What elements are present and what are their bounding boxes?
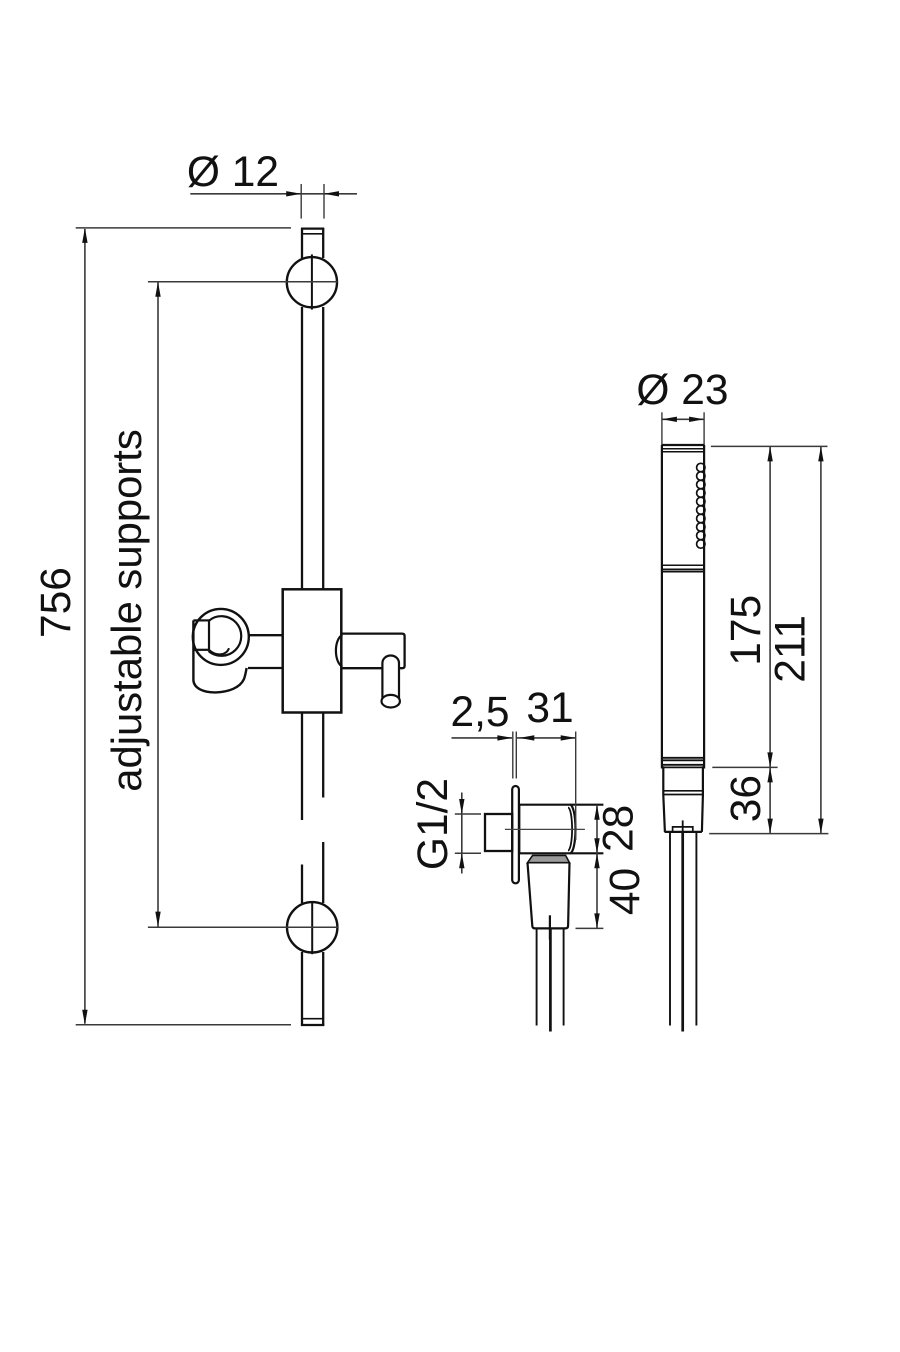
svg-text:Ø 23: Ø 23 [636,367,728,414]
svg-text:40: 40 [602,868,649,915]
svg-text:G1/2: G1/2 [410,778,457,870]
svg-text:31: 31 [526,685,573,732]
svg-text:Ø 12: Ø 12 [187,149,279,196]
svg-text:175: 175 [723,595,770,666]
svg-text:28: 28 [595,805,642,852]
svg-text:756: 756 [33,567,80,638]
svg-text:211: 211 [768,615,815,683]
svg-text:2,5: 2,5 [450,689,509,736]
svg-text:36: 36 [723,775,770,822]
svg-text:adjustable supports: adjustable supports [103,429,150,791]
